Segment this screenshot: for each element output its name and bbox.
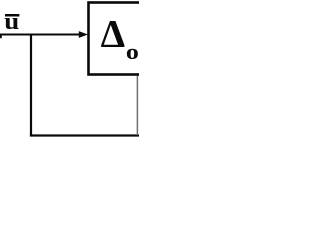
node u-bar overbar (5, 14, 19, 17)
block Delta_o (89, 3, 151, 75)
wire bottom horizontal (30, 134, 139, 136)
wire input horizontal (0, 33, 80, 35)
svg-text:Δ: Δ (101, 13, 125, 56)
svg-text:u: u (4, 7, 19, 34)
arrowhead into block (79, 31, 88, 38)
wire right riser (136, 76, 138, 135)
svg-text:o: o (126, 41, 139, 65)
wire branch down (30, 34, 32, 137)
wire stub at left edge (0, 34, 2, 38)
